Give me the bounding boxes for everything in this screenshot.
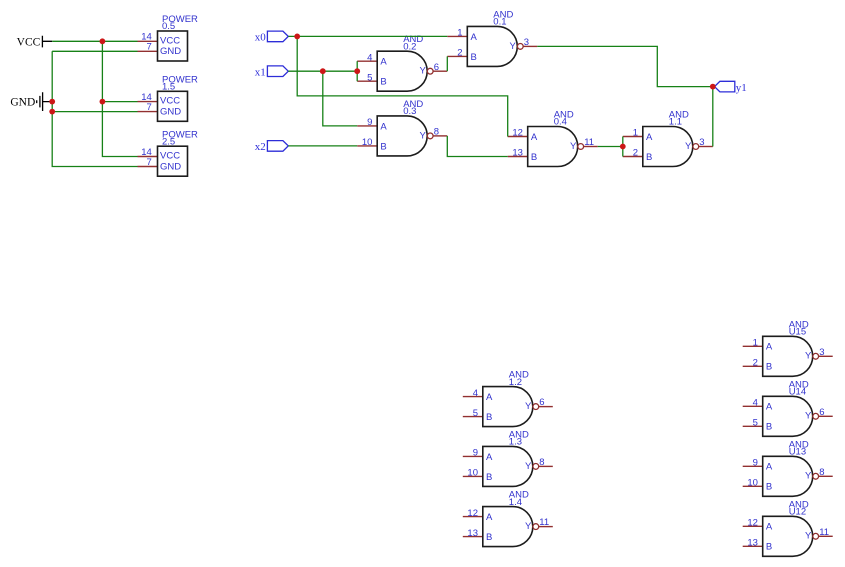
svg-text:Y: Y — [570, 141, 577, 152]
svg-text:3: 3 — [699, 137, 704, 148]
nand gate U14 — [743, 379, 833, 436]
svg-text:6: 6 — [539, 397, 544, 408]
wire 0.3 output to 0.4 pin 13 — [447, 136, 507, 157]
svg-text:0.2: 0.2 — [403, 41, 416, 52]
svg-text:5: 5 — [367, 72, 372, 83]
junction x1 branch — [320, 68, 326, 74]
svg-text:Y: Y — [510, 41, 517, 52]
svg-text:2: 2 — [753, 358, 758, 369]
svg-text:Y: Y — [525, 401, 532, 412]
svg-text:3: 3 — [524, 37, 529, 48]
wire 0.4 output to 1.1 inputs — [598, 146, 623, 148]
svg-text:13: 13 — [512, 148, 523, 159]
junction 1.1 input jog — [620, 144, 626, 150]
wire 0.2 output to 0.1 pin 2 — [446, 56, 448, 71]
wire x1 branch to 0.3 pin 9 — [323, 71, 357, 126]
nand gate U12 — [743, 499, 833, 556]
junction y1 — [710, 84, 716, 90]
power box 1.5 — [138, 75, 199, 122]
nand gate 1.2 — [463, 370, 553, 427]
svg-text:A: A — [486, 392, 493, 403]
svg-text:Y: Y — [805, 531, 812, 542]
power symbol VCC — [17, 36, 53, 49]
svg-text:11: 11 — [819, 527, 829, 538]
svg-text:7: 7 — [147, 42, 152, 53]
svg-text:B: B — [766, 362, 772, 373]
svg-text:2: 2 — [633, 148, 638, 159]
svg-text:0.3: 0.3 — [403, 106, 416, 117]
svg-text:12: 12 — [467, 508, 478, 519]
wire 0.2 input jog — [356, 61, 358, 81]
svg-text:VCC: VCC — [160, 96, 180, 107]
svg-text:x1: x1 — [255, 67, 266, 79]
svg-text:1: 1 — [457, 28, 462, 39]
junction GND symbol — [49, 99, 55, 105]
nand gate 1.3 — [463, 429, 553, 486]
svg-text:VCC: VCC — [160, 151, 180, 162]
svg-text:Y: Y — [419, 66, 426, 77]
wire x0 to 0.1 pin 1 — [288, 35, 447, 37]
wire x1 to 0.2 inputs — [288, 70, 357, 72]
wire 1.1 input jog — [622, 137, 624, 157]
svg-text:A: A — [380, 57, 387, 68]
nand gate U15 — [743, 319, 833, 376]
svg-text:B: B — [380, 77, 386, 88]
nand gate 0.4 — [508, 110, 598, 167]
svg-text:B: B — [531, 152, 537, 163]
svg-text:y1: y1 — [736, 82, 747, 94]
svg-text:12: 12 — [747, 518, 758, 529]
svg-text:5: 5 — [753, 418, 758, 429]
svg-text:B: B — [471, 52, 477, 63]
power box 2.5 — [138, 129, 199, 176]
svg-text:A: A — [766, 522, 773, 533]
svg-text:GND: GND — [160, 46, 181, 57]
svg-text:A: A — [646, 132, 653, 143]
svg-text:B: B — [486, 472, 492, 483]
wire 0.1 output to y1 — [537, 46, 713, 86]
svg-text:8: 8 — [434, 127, 439, 138]
junction x0 branch — [294, 34, 300, 40]
power box 0.5 — [138, 14, 199, 61]
svg-text:U15: U15 — [789, 327, 806, 338]
wire GND to POWER 0.5 pin 7 — [52, 50, 137, 52]
nand gate 0.2 — [357, 34, 447, 91]
power symbol GND — [10, 92, 52, 111]
nand gate 1.4 — [463, 490, 553, 547]
svg-text:2: 2 — [457, 48, 462, 59]
svg-text:6: 6 — [434, 62, 439, 73]
svg-text:x2: x2 — [255, 141, 266, 153]
svg-text:1.3: 1.3 — [509, 437, 522, 448]
svg-text:10: 10 — [467, 468, 478, 479]
svg-text:4: 4 — [753, 398, 758, 409]
svg-text:10: 10 — [362, 137, 373, 148]
svg-text:A: A — [380, 121, 387, 132]
svg-text:4: 4 — [367, 52, 372, 63]
svg-text:GND: GND — [160, 161, 181, 172]
output port y1 — [715, 81, 747, 94]
svg-text:7: 7 — [147, 102, 152, 113]
wire x0 branch to 0.4 pin 12 — [297, 36, 508, 136]
junction x1 at 0.2 jog — [354, 68, 360, 74]
svg-text:1.4: 1.4 — [509, 497, 522, 508]
svg-text:1: 1 — [753, 338, 758, 349]
svg-text:6: 6 — [819, 407, 824, 418]
svg-text:A: A — [766, 342, 773, 353]
svg-text:Y: Y — [525, 461, 532, 472]
svg-text:7: 7 — [147, 157, 152, 168]
wire VCC trunk down to POWER 2.5 pin 14 — [102, 41, 137, 156]
svg-text:1.1: 1.1 — [669, 117, 682, 128]
svg-text:B: B — [486, 412, 492, 423]
nand gate U13 — [743, 439, 833, 496]
svg-text:12: 12 — [512, 128, 523, 139]
svg-text:5: 5 — [473, 408, 478, 419]
svg-text:A: A — [471, 32, 478, 43]
svg-text:8: 8 — [539, 457, 544, 468]
nand gate 1.1 — [623, 110, 713, 167]
input port x2 — [255, 141, 289, 154]
svg-text:A: A — [766, 402, 773, 413]
svg-text:B: B — [766, 422, 772, 433]
wire 1.1 output to y1 — [712, 87, 714, 147]
svg-text:A: A — [531, 132, 538, 143]
svg-text:1.2: 1.2 — [509, 377, 522, 388]
svg-text:Y: Y — [525, 521, 532, 532]
wire VCC branch to POWER 1.5 pin 14 — [102, 101, 137, 103]
svg-text:9: 9 — [753, 458, 758, 469]
svg-text:0.1: 0.1 — [493, 17, 506, 28]
junction VCC trunk — [100, 38, 106, 44]
svg-text:9: 9 — [367, 117, 372, 128]
nand gate 0.3 — [357, 99, 447, 156]
svg-text:U12: U12 — [789, 507, 806, 518]
svg-text:B: B — [486, 532, 492, 543]
svg-text:B: B — [380, 141, 386, 152]
svg-text:Y: Y — [419, 130, 426, 141]
input port x0 — [255, 31, 289, 44]
wire GND trunk down to POWER 2.5 pin 7 — [52, 51, 137, 166]
svg-text:VCC: VCC — [160, 35, 180, 46]
svg-text:A: A — [486, 452, 493, 463]
svg-text:A: A — [486, 512, 493, 523]
svg-text:B: B — [766, 542, 772, 553]
svg-text:11: 11 — [539, 517, 549, 528]
wire VCC to POWER 0.5 pin 14 — [52, 40, 137, 42]
svg-text:GND: GND — [160, 107, 181, 118]
svg-text:VCC: VCC — [17, 37, 41, 49]
svg-text:11: 11 — [584, 137, 594, 148]
svg-text:A: A — [766, 462, 773, 473]
svg-text:13: 13 — [467, 528, 478, 539]
svg-text:Y: Y — [805, 471, 812, 482]
svg-text:B: B — [766, 482, 772, 493]
nand gate 0.1 — [447, 9, 537, 66]
svg-text:U13: U13 — [789, 447, 806, 458]
svg-text:Y: Y — [685, 141, 692, 152]
svg-text:x0: x0 — [255, 32, 267, 44]
svg-text:1.5: 1.5 — [162, 82, 175, 93]
svg-text:2.5: 2.5 — [162, 136, 175, 147]
svg-text:13: 13 — [747, 538, 758, 549]
input port x1 — [255, 66, 289, 79]
svg-text:GND: GND — [10, 96, 35, 108]
svg-text:1: 1 — [633, 128, 638, 139]
wire GND branch to POWER 1.5 pin 7 — [52, 111, 137, 113]
svg-text:0.5: 0.5 — [162, 21, 175, 32]
junction VCC branch 1.5 — [100, 99, 106, 105]
junction GND branch 1.5 — [49, 109, 55, 115]
svg-text:Y: Y — [805, 411, 812, 422]
svg-text:U14: U14 — [789, 387, 806, 398]
svg-text:3: 3 — [819, 347, 824, 358]
svg-text:0.4: 0.4 — [554, 117, 567, 128]
svg-text:10: 10 — [747, 478, 758, 489]
svg-text:8: 8 — [819, 467, 824, 478]
svg-text:9: 9 — [473, 448, 478, 459]
svg-text:B: B — [646, 152, 652, 163]
wire x2 to 0.3 pin 10 — [288, 145, 357, 147]
svg-text:4: 4 — [473, 388, 478, 399]
svg-text:Y: Y — [805, 351, 812, 362]
